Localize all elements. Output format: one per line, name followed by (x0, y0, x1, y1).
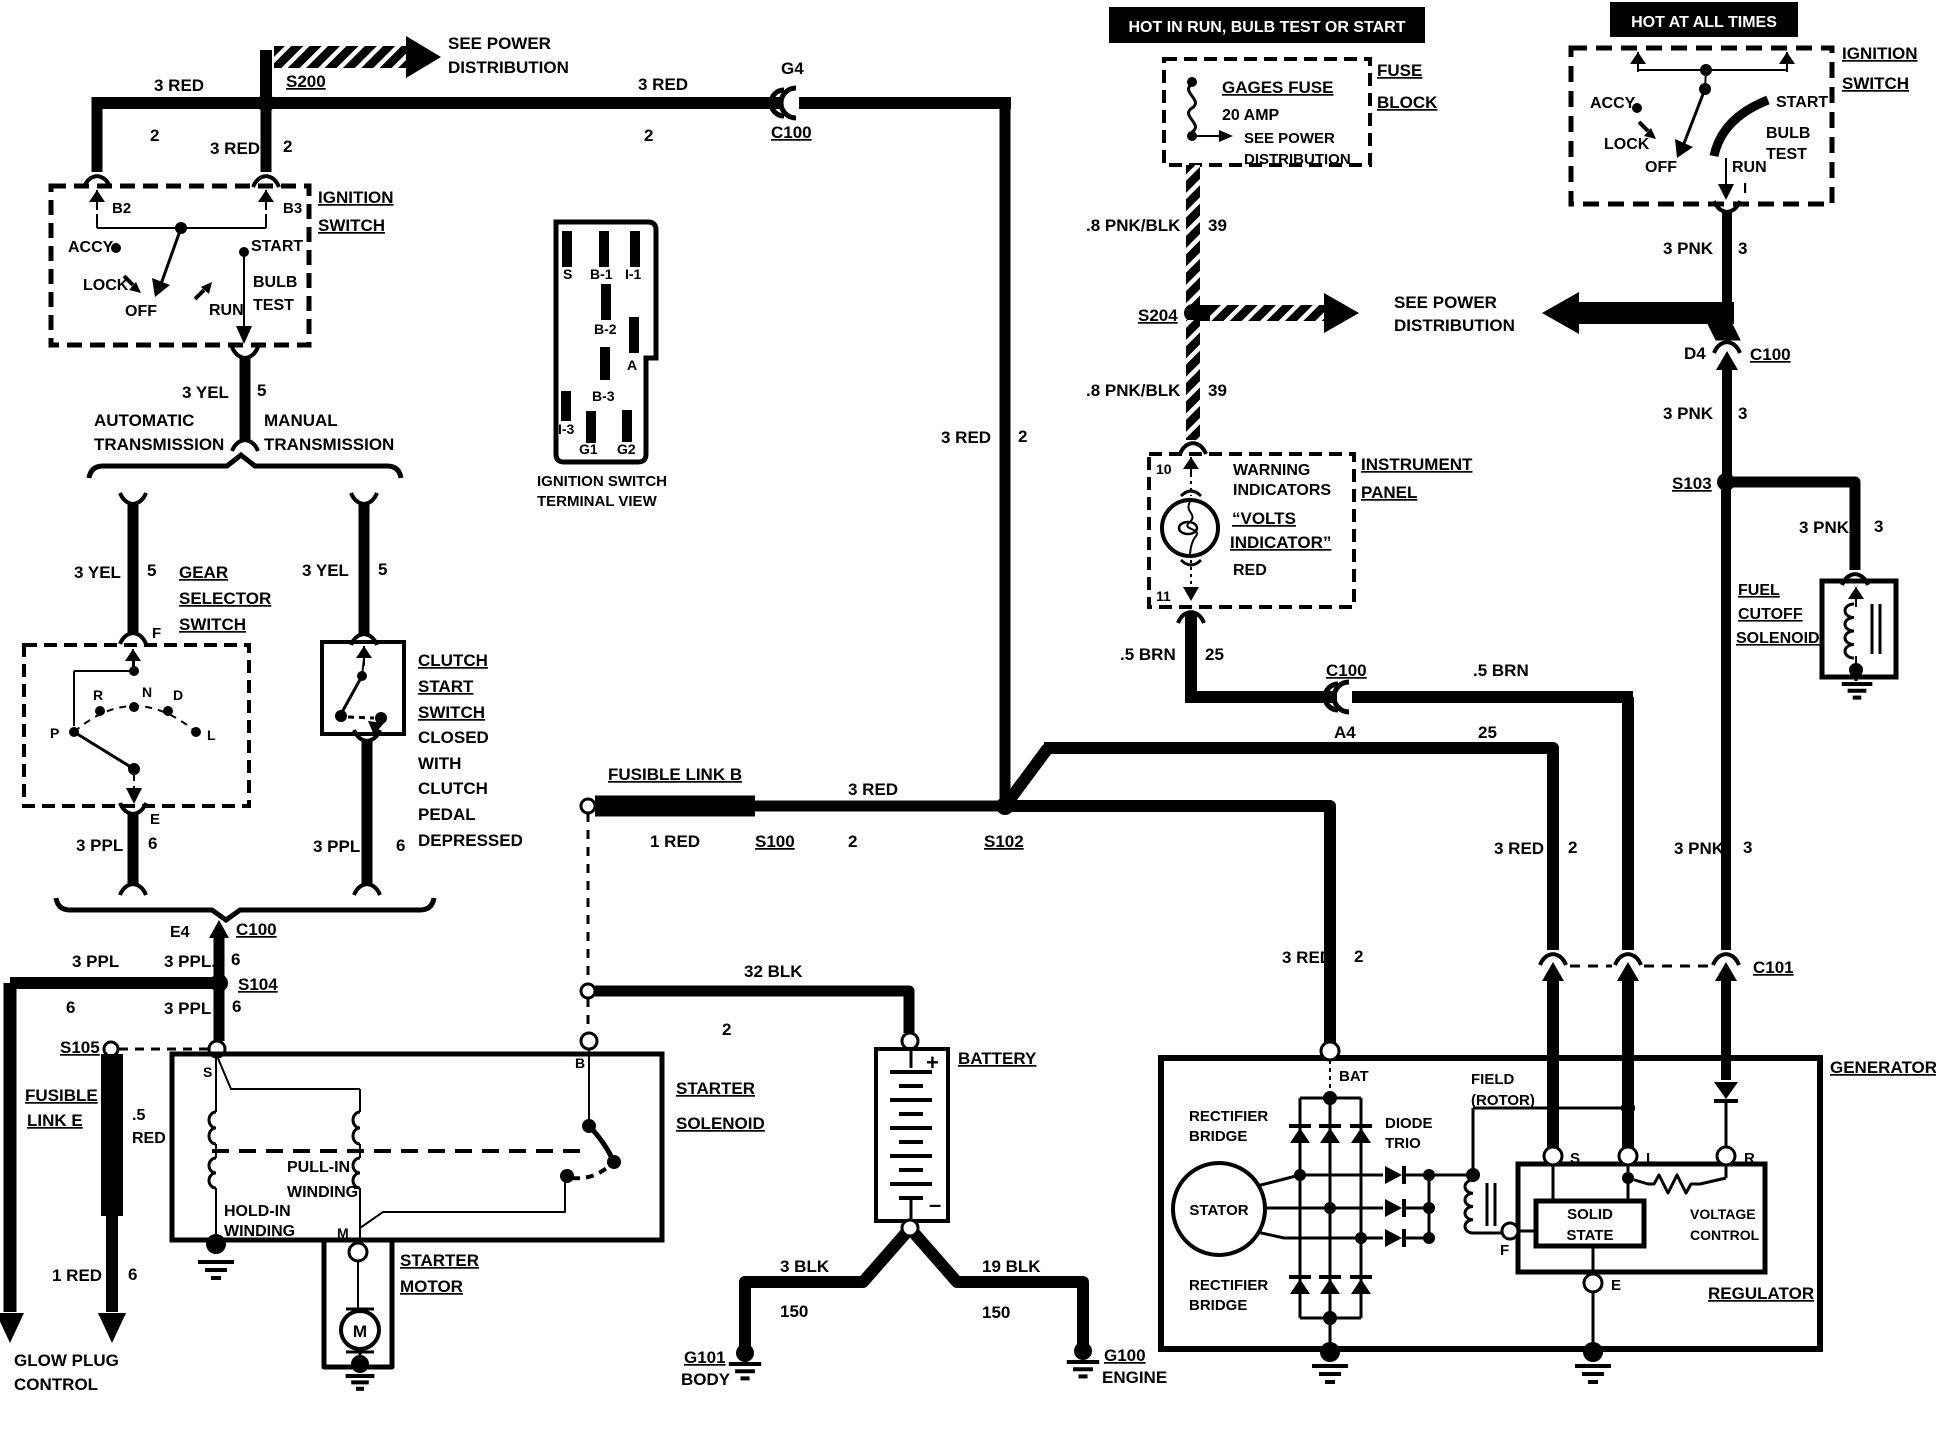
contact START (239, 247, 249, 257)
svg-text:BRIDGE: BRIDGE (1189, 1128, 1247, 1145)
svg-text:SEE POWER: SEE POWER (1394, 293, 1497, 312)
svg-text:25: 25 (1205, 645, 1224, 664)
svg-text:L: L (207, 727, 216, 743)
contact R (95, 706, 105, 716)
svg-text:B-3: B-3 (592, 388, 615, 404)
svg-text:RUN: RUN (209, 302, 244, 319)
svg-text:3 PNK: 3 PNK (1799, 518, 1850, 537)
svg-text:ENGINE: ENGINE (1102, 1368, 1167, 1387)
svg-text:6: 6 (148, 834, 157, 853)
svg-text:AUTOMATIC: AUTOMATIC (94, 411, 194, 430)
ground G101 BODY (736, 1344, 754, 1362)
ignition actuator arc RUN-START (1714, 100, 1768, 156)
svg-text:S200: S200 (286, 72, 326, 91)
svg-text:M: M (353, 1322, 367, 1341)
svg-text:E: E (1611, 1277, 1621, 1294)
svg-text:B3: B3 (283, 200, 302, 217)
svg-text:LINK E: LINK E (27, 1111, 83, 1130)
svg-text:I-1: I-1 (625, 266, 642, 282)
svg-text:A4: A4 (1334, 723, 1356, 742)
svg-text:M: M (337, 1225, 349, 1241)
battery negative terminal (902, 1220, 918, 1236)
svg-text:SEE POWER: SEE POWER (1244, 130, 1335, 147)
svg-text:5: 5 (147, 561, 156, 580)
svg-text:3: 3 (1738, 239, 1747, 258)
svg-text:2: 2 (848, 832, 857, 851)
svg-text:3 PPL: 3 PPL (164, 999, 211, 1018)
svg-text:S104: S104 (238, 975, 278, 994)
svg-text:3: 3 (1743, 838, 1752, 857)
svg-text:GAGES FUSE: GAGES FUSE (1222, 78, 1333, 97)
ignition blade to OFF (1683, 89, 1705, 146)
svg-text:DIODE: DIODE (1385, 1115, 1433, 1132)
svg-text:PULL-IN: PULL-IN (287, 1159, 350, 1176)
terminal F generator (1502, 1223, 1518, 1239)
solenoid plunger linkage (dashed) (212, 1149, 585, 1153)
svg-text:TERMINAL VIEW: TERMINAL VIEW (537, 493, 658, 510)
connector G4 C100 on bus (783, 95, 799, 111)
wire 3 YEL manual branch (351, 493, 377, 504)
diode trio output rail (1428, 1175, 1431, 1238)
starter motor housing (324, 1240, 392, 1367)
gear selector wiper (128, 763, 140, 775)
svg-text:FUEL: FUEL (1738, 582, 1780, 599)
svg-text:3 PPL.: 3 PPL. (164, 952, 216, 971)
svg-text:WINDING: WINDING (287, 1184, 358, 1201)
svg-text:39: 39 (1208, 381, 1227, 400)
svg-text:INDICATOR”: INDICATOR” (1230, 533, 1331, 552)
starter motor M (346, 1308, 374, 1311)
clutch switch blade (341, 676, 362, 714)
wire internal rail B2-B3 (96, 214, 98, 228)
svg-text:REGULATOR: REGULATOR (1708, 1284, 1814, 1303)
hatched arrow S204 to power distribution (1198, 305, 1212, 321)
svg-text:B-2: B-2 (594, 321, 617, 337)
svg-text:I-3: I-3 (558, 421, 575, 437)
svg-text:5: 5 (378, 560, 387, 579)
svg-text:ACCY: ACCY (1590, 95, 1636, 112)
solenoid switch blade (588, 1049, 590, 1120)
wire pull-in to moving contact (360, 1180, 565, 1228)
terminal B-2 (601, 284, 611, 320)
node bridge top (1323, 1091, 1337, 1105)
ignition switch (right) dashed box (1571, 48, 1832, 204)
svg-text:S: S (1570, 1150, 1580, 1167)
terminal B starter solenoid (581, 1033, 597, 1049)
svg-text:.5: .5 (132, 1107, 145, 1124)
svg-text:3 PPL: 3 PPL (313, 837, 360, 856)
node S102 (996, 797, 1014, 815)
wire main 3 RED bus (y=103) (95, 97, 1011, 109)
svg-text:D: D (173, 687, 183, 703)
svg-text:FUSE: FUSE (1377, 61, 1422, 80)
svg-text:150: 150 (982, 1303, 1010, 1322)
svg-text:S100: S100 (755, 832, 795, 851)
svg-text:DEPRESSED: DEPRESSED (418, 831, 523, 850)
clutch start switch box (322, 642, 404, 734)
svg-text:S: S (203, 1064, 212, 1080)
solenoid ground (206, 1234, 226, 1254)
contact RUN pointer (195, 290, 204, 299)
ground G100 ENGINE (1074, 1342, 1092, 1360)
svg-text:3 PNK: 3 PNK (1674, 839, 1725, 858)
battery positive terminal (902, 1033, 918, 1049)
svg-text:39: 39 (1208, 216, 1227, 235)
ignition feed arrows (1637, 52, 1639, 72)
wire .5 BRN C100 to generator L (1352, 691, 1633, 703)
svg-text:G1: G1 (579, 441, 598, 457)
fuel solenoid ground (1849, 663, 1863, 677)
clutch switch top contact (357, 671, 367, 681)
svg-text:3 YEL: 3 YEL (74, 563, 121, 582)
fuel solenoid entry arrow (1855, 587, 1857, 607)
svg-text:3 RED: 3 RED (1494, 839, 1544, 858)
wire S104 to starter solenoid S (214, 983, 225, 1041)
svg-text:DISTRIBUTION: DISTRIBUTION (1244, 151, 1351, 168)
svg-text:C100: C100 (1326, 661, 1367, 680)
ground regulator E (1583, 1342, 1603, 1362)
svg-text:START: START (1776, 94, 1828, 111)
wire 3 BLK to G101 (745, 1233, 906, 1352)
wire 3 RED fusible link B to S102 (755, 801, 1000, 812)
hatched arrow SEE POWER DISTRIBUTION (top left) (274, 46, 408, 68)
wire RUN to I terminal (1725, 158, 1727, 188)
svg-text:6: 6 (128, 1265, 137, 1284)
svg-text:.8 PNK/BLK: .8 PNK/BLK (1086, 216, 1181, 235)
svg-text:RECTIFIER: RECTIFIER (1189, 1277, 1268, 1294)
svg-text:S: S (563, 266, 572, 282)
regulator box (1518, 1164, 1765, 1272)
gages fuse (1187, 77, 1197, 87)
svg-text:BULB: BULB (253, 274, 297, 291)
svg-text:RUN: RUN (1732, 159, 1767, 176)
terminal F entry arrow (132, 649, 134, 669)
svg-text:BODY: BODY (681, 1370, 731, 1389)
svg-text:P: P (50, 725, 59, 741)
svg-text:.5 BRN: .5 BRN (1473, 661, 1529, 680)
wire 3 YEL output (232, 347, 258, 358)
svg-text:IGNITION SWITCH: IGNITION SWITCH (537, 473, 667, 490)
field core (1486, 1183, 1489, 1226)
terminal E generator (1592, 1246, 1595, 1274)
svg-text:1 RED: 1 RED (52, 1266, 102, 1285)
svg-text:F: F (1500, 1242, 1509, 1259)
svg-text:SOLENOID: SOLENOID (1736, 630, 1820, 647)
svg-text:C101: C101 (1753, 958, 1794, 977)
terminal A (629, 317, 639, 353)
svg-text:GEAR: GEAR (179, 563, 228, 582)
svg-text:CLOSED: CLOSED (418, 728, 489, 747)
svg-text:G100: G100 (1104, 1346, 1146, 1365)
svg-text:FUSIBLE LINK B: FUSIBLE LINK B (608, 765, 742, 784)
clutch switch entry arrow (363, 646, 365, 666)
contact L (191, 727, 201, 737)
contact LOCK pointer (right) (1639, 122, 1648, 131)
switch blade to OFF (161, 228, 181, 284)
terminal 32 BLK (581, 984, 595, 998)
wire fusible link E feed (to glow plug control) (4, 983, 17, 1312)
svg-text:6: 6 (231, 950, 240, 969)
wire S to pull-in winding (217, 1056, 360, 1089)
svg-text:A: A (627, 357, 637, 373)
svg-text:I: I (1743, 180, 1747, 197)
contact P (69, 727, 79, 737)
terminal 10 warning indicator (1190, 457, 1192, 477)
volts indicator bulb (1190, 474, 1192, 496)
svg-text:2: 2 (1354, 947, 1363, 966)
terminal I-1 (630, 231, 640, 267)
svg-text:L: L (1646, 1150, 1655, 1167)
node gear selector common (129, 666, 139, 676)
svg-text:CLUTCH: CLUTCH (418, 651, 488, 670)
banner HOT IN RUN BULB TEST OR START (1109, 7, 1425, 43)
svg-text:–: – (929, 1192, 941, 1217)
svg-text:2: 2 (644, 126, 653, 145)
svg-text:FUSIBLE: FUSIBLE (25, 1086, 98, 1105)
svg-text:HOLD-IN: HOLD-IN (224, 1203, 291, 1220)
diode at R (1714, 1082, 1738, 1099)
fuel cutoff solenoid box (1822, 581, 1896, 677)
svg-text:6: 6 (396, 836, 405, 855)
fuel solenoid core (1871, 604, 1874, 654)
svg-text:C100: C100 (771, 123, 812, 142)
svg-text:3 BLK: 3 BLK (780, 1257, 830, 1276)
terminal G2 (622, 410, 632, 442)
contact N (129, 702, 139, 712)
svg-text:G2: G2 (617, 441, 636, 457)
solid state box (1536, 1201, 1644, 1246)
svg-text:INDICATORS: INDICATORS (1233, 482, 1331, 499)
wire START to output (243, 252, 245, 332)
svg-text:C100: C100 (236, 920, 277, 939)
terminal B-1 (599, 231, 609, 267)
wire 19 BLK to G100 (914, 1233, 1083, 1350)
voltage control resistor (1622, 1172, 1634, 1184)
svg-text:S105: S105 (60, 1038, 100, 1057)
terminal BAT generator (1321, 1042, 1339, 1060)
svg-text:1 RED: 1 RED (650, 832, 700, 851)
svg-text:SOLID: SOLID (1567, 1206, 1613, 1223)
svg-text:B2: B2 (112, 200, 131, 217)
svg-text:.8 PNK/BLK: .8 PNK/BLK (1086, 381, 1181, 400)
node S200 (257, 94, 275, 112)
svg-text:INSTRUMENT: INSTRUMENT (1361, 455, 1473, 474)
svg-text:MOTOR: MOTOR (400, 1277, 463, 1296)
svg-text:6: 6 (232, 997, 241, 1016)
svg-text:BAT: BAT (1339, 1068, 1369, 1085)
svg-text:25: 25 (1478, 723, 1497, 742)
svg-text:CONTROL: CONTROL (1690, 1227, 1760, 1243)
fuse block dashed box (1164, 59, 1370, 165)
svg-text:HOT AT ALL TIMES: HOT AT ALL TIMES (1631, 14, 1777, 31)
svg-text:GLOW PLUG: GLOW PLUG (14, 1351, 119, 1370)
svg-text:WITH: WITH (418, 754, 461, 773)
svg-text:BLOCK: BLOCK (1377, 93, 1438, 112)
clutch switch exit arrow (376, 718, 381, 724)
svg-text:3 PNK: 3 PNK (1663, 239, 1714, 258)
svg-text:3 PNK: 3 PNK (1663, 404, 1714, 423)
connector C101 (1540, 954, 1566, 965)
svg-text:CONTROL: CONTROL (14, 1375, 98, 1394)
svg-text:S102: S102 (984, 832, 1024, 851)
wire 3 PPL (manual) (354, 730, 380, 741)
connector C100 D4 (1714, 342, 1740, 353)
gear selector switch dashed box (24, 645, 249, 806)
svg-text:OFF: OFF (125, 303, 157, 320)
svg-text:BULB: BULB (1766, 125, 1810, 142)
ignition switch terminal view connector (556, 222, 656, 462)
svg-text:B-1: B-1 (590, 266, 613, 282)
svg-text:RECTIFIER: RECTIFIER (1189, 1108, 1268, 1125)
svg-text:VOLTAGE: VOLTAGE (1690, 1206, 1756, 1222)
svg-text:32 BLK: 32 BLK (744, 962, 803, 981)
svg-text:3 RED: 3 RED (941, 428, 991, 447)
svg-text:IGNITION: IGNITION (318, 188, 394, 207)
stator (1173, 1163, 1265, 1255)
svg-text:G4: G4 (781, 59, 804, 78)
svg-text:D4: D4 (1684, 344, 1706, 363)
svg-text:IGNITION: IGNITION (1842, 44, 1918, 63)
svg-text:6: 6 (66, 998, 75, 1017)
wire S103 to fuel cutoff solenoid (1726, 482, 1855, 570)
svg-text:OFF: OFF (1645, 159, 1677, 176)
svg-text:3 YEL: 3 YEL (302, 561, 349, 580)
svg-text:2: 2 (1018, 427, 1027, 446)
svg-text:E: E (150, 811, 160, 828)
node S103 (1717, 473, 1735, 491)
svg-text:.5 BRN: .5 BRN (1120, 645, 1176, 664)
svg-text:3 RED: 3 RED (638, 75, 688, 94)
wire .8 PNK/BLK fuse to S204 (hatched) (1186, 165, 1200, 306)
svg-text:N: N (142, 684, 152, 700)
terminal E exit (120, 803, 146, 814)
terminal I-3 (561, 391, 571, 421)
terminal R generator (1721, 1058, 1731, 1080)
svg-text:START: START (418, 677, 474, 696)
wire to P contact (74, 670, 134, 672)
svg-text:3: 3 (1738, 404, 1747, 423)
wire 3 PNK S103 to generator R (1721, 482, 1731, 950)
svg-text:BATTERY: BATTERY (958, 1049, 1037, 1068)
wire 3 PPL (automatic) (128, 814, 139, 884)
svg-text:R: R (93, 687, 103, 703)
svg-text:PEDAL: PEDAL (418, 805, 476, 824)
svg-text:START: START (251, 238, 303, 255)
svg-text:10: 10 (1156, 461, 1172, 477)
rectifier bridge diodes bottom (1289, 1275, 1311, 1279)
svg-text:3 YEL: 3 YEL (182, 383, 229, 402)
pull-in winding (359, 1089, 361, 1112)
svg-text:DISTRIBUTION: DISTRIBUTION (448, 58, 569, 77)
svg-text:STARTER: STARTER (400, 1251, 479, 1270)
wire 32 BLK to battery (595, 991, 909, 1033)
svg-text:SWITCH: SWITCH (1842, 74, 1909, 93)
svg-text:3 RED: 3 RED (154, 76, 204, 95)
terminal G1 (586, 411, 596, 443)
svg-text:2: 2 (150, 126, 159, 145)
svg-text:GENERATOR: GENERATOR (1830, 1058, 1936, 1077)
banner HOT AT ALL TIMES (1610, 2, 1798, 37)
svg-text:2: 2 (1568, 838, 1577, 857)
wire S104 horizontal (10, 977, 219, 989)
rectifier bridge rails (1300, 1097, 1361, 1100)
svg-text:S204: S204 (1138, 306, 1178, 325)
svg-text:ACCY: ACCY (68, 239, 114, 256)
terminal L generator (1622, 1058, 1634, 1148)
svg-text:(ROTOR): (ROTOR) (1471, 1092, 1535, 1109)
node S104 (210, 974, 228, 992)
battery (876, 1049, 948, 1221)
svg-text:F: F (152, 625, 161, 642)
svg-text:3 PPL: 3 PPL (76, 836, 123, 855)
svg-text:G101: G101 (684, 1348, 726, 1367)
svg-text:CLUTCH: CLUTCH (418, 779, 488, 798)
stator phase wires (1257, 1175, 1383, 1186)
svg-text:MANUAL: MANUAL (264, 411, 338, 430)
svg-text:STATE: STATE (1567, 1227, 1614, 1244)
svg-text:20 AMP: 20 AMP (1222, 107, 1280, 124)
svg-text:TEST: TEST (1766, 146, 1807, 163)
ignition switch (left) dashed box (51, 186, 309, 345)
svg-text:TRIO: TRIO (1385, 1135, 1421, 1152)
svg-text:WINDING: WINDING (224, 1223, 295, 1240)
hold-in winding (215, 1056, 217, 1112)
contact D (163, 706, 173, 716)
svg-text:C100: C100 (1750, 345, 1791, 364)
svg-text:TEST: TEST (253, 297, 294, 314)
contact LOCK pointer (124, 276, 133, 285)
terminal S generator (1547, 1058, 1559, 1148)
svg-text:RED: RED (132, 1130, 166, 1147)
svg-text:5: 5 (257, 381, 266, 400)
brace transmission split (89, 455, 401, 478)
svg-text:SWITCH: SWITCH (318, 216, 385, 235)
svg-text:HOT IN RUN, BULB TEST OR START: HOT IN RUN, BULB TEST OR START (1128, 19, 1405, 36)
svg-text:LOCK: LOCK (83, 277, 129, 294)
svg-text:B: B (575, 1055, 585, 1071)
terminal M starter solenoid (349, 1243, 367, 1261)
svg-text:PANEL: PANEL (1361, 483, 1417, 502)
svg-text:3 RED: 3 RED (210, 139, 260, 158)
starter solenoid box (172, 1054, 662, 1240)
contact ACCY (111, 243, 121, 253)
svg-text:S103: S103 (1672, 474, 1712, 493)
fuel solenoid coil (1855, 599, 1857, 604)
svg-text:3 RED: 3 RED (848, 780, 898, 799)
svg-text:2: 2 (722, 1020, 731, 1039)
svg-text:3 PPL: 3 PPL (72, 952, 119, 971)
ground rectifier bridge (1329, 1318, 1332, 1352)
wire .8 PNK/BLK S204 to instrument panel (hatched) (1186, 320, 1200, 440)
svg-text:150: 150 (780, 1302, 808, 1321)
connector C100 E4 (209, 920, 229, 938)
terminal B-3 (600, 347, 610, 380)
wire S200 riser to power distribution arrow (260, 50, 272, 103)
field coil (1465, 1180, 1473, 1233)
svg-text:“VOLTS: “VOLTS (1232, 509, 1296, 528)
svg-text:CUTOFF: CUTOFF (1738, 606, 1803, 623)
gear selector detent arc (74, 706, 196, 732)
svg-text:SOLENOID: SOLENOID (676, 1114, 765, 1133)
svg-text:11: 11 (1156, 588, 1171, 604)
diode trio diodes (1385, 1166, 1402, 1184)
starter motor ground (351, 1355, 369, 1373)
wire A4 25 S102 to generator S (1005, 748, 1048, 806)
instrument panel dashed box (1149, 454, 1354, 607)
wire 3 RED vertical drop to S102 (1000, 97, 1011, 806)
svg-text:R: R (1744, 1150, 1755, 1167)
svg-text:SWITCH: SWITCH (418, 703, 485, 722)
